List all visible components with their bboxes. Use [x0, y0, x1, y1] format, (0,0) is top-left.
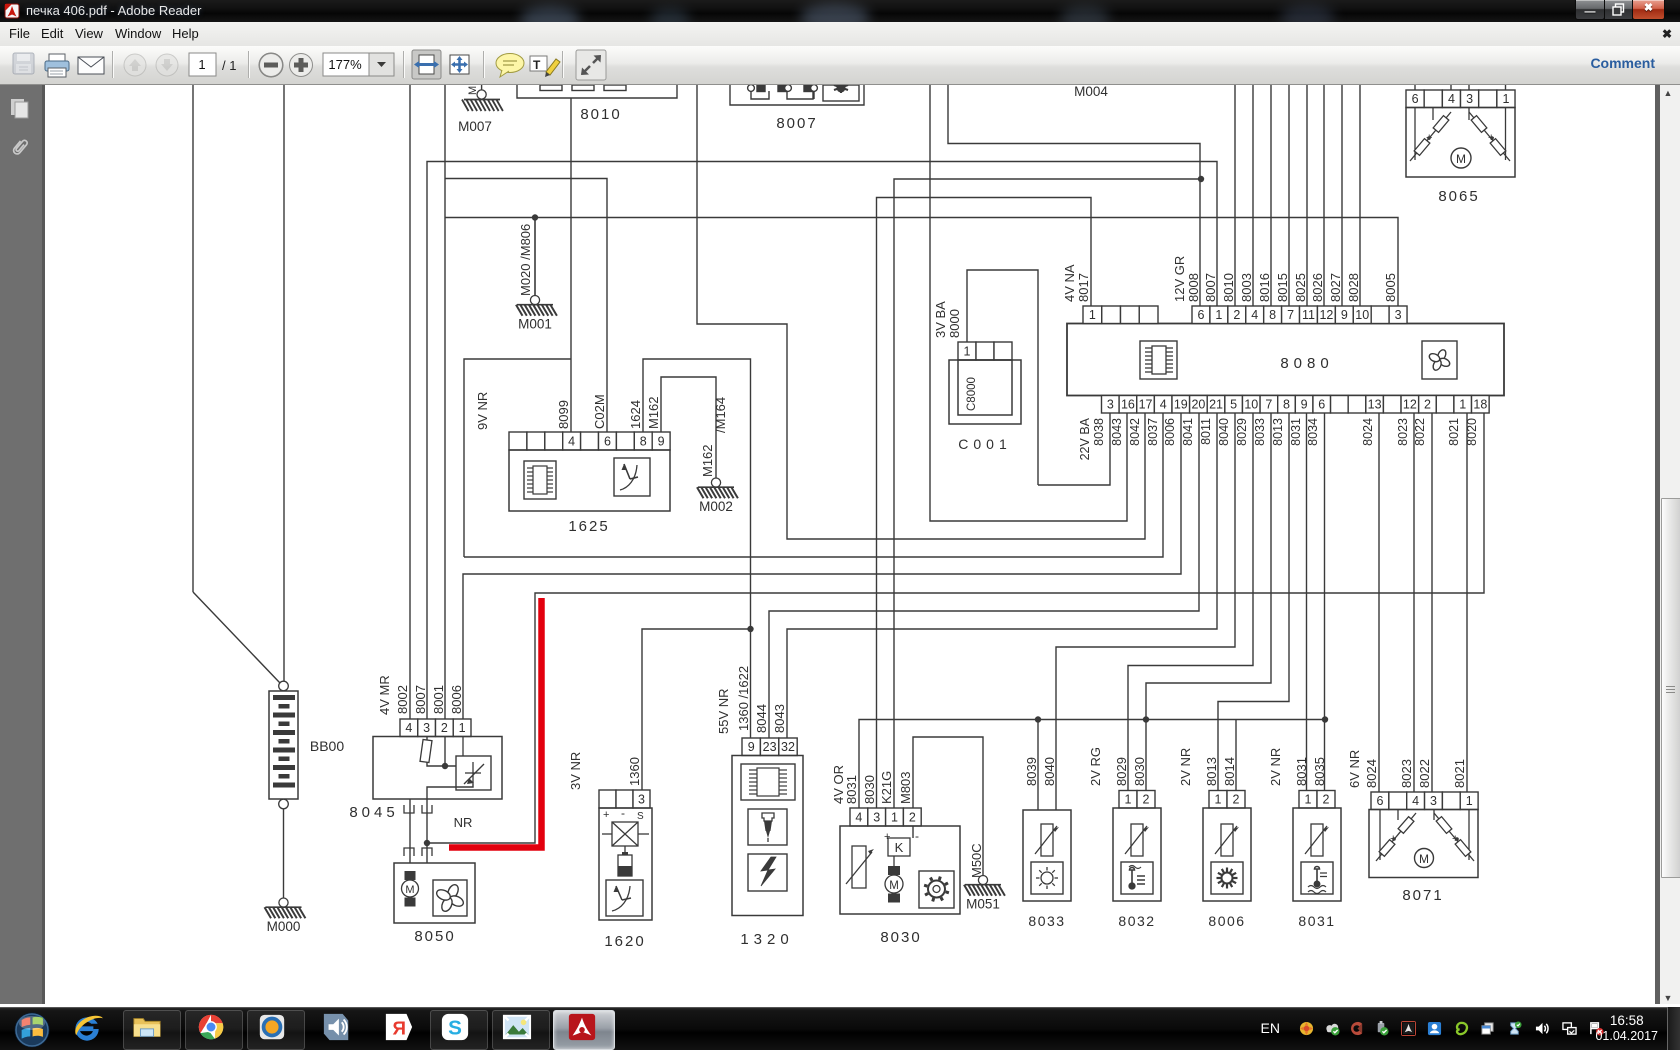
8050 motor M	[402, 871, 419, 907]
toolbar	[0, 46, 1680, 85]
1625 flap icon	[614, 458, 650, 496]
component 8071 body	[1369, 810, 1478, 878]
svg-text:8: 8	[1269, 308, 1276, 322]
page down (disabled)	[156, 54, 178, 76]
svg-text:10: 10	[1244, 398, 1258, 412]
svg-text:/ 1: / 1	[222, 58, 236, 73]
svg-text:10: 10	[1355, 308, 1369, 322]
taskbar IE icon	[70, 1012, 104, 1046]
svg-text:8013: 8013	[1271, 418, 1285, 446]
svg-text:9V NR: 9V NR	[475, 392, 490, 430]
email icon	[78, 57, 104, 74]
svg-text:-: -	[621, 806, 625, 820]
taskbar folder icon	[123, 1010, 181, 1050]
svg-text:+: +	[603, 809, 609, 821]
wire diagonal to battery	[193, 592, 280, 683]
8030 motor	[885, 856, 903, 903]
svg-text:M: M	[405, 884, 414, 896]
junction node rail/8034	[1322, 716, 1328, 722]
wire net 8013 (8080 to 8006 pin1)	[1218, 413, 1289, 791]
connector pins 8006 connector	[1209, 791, 1245, 809]
svg-text:1: 1	[198, 57, 205, 72]
8006 thermistor	[1215, 824, 1239, 856]
wire net 8024 (8080 to 8071 pin6)	[1378, 413, 1380, 792]
svg-text:1: 1	[1215, 308, 1222, 322]
svg-text:2: 2	[1424, 398, 1431, 412]
connector pins 8080 top-right pins	[1192, 306, 1407, 324]
svg-text:9: 9	[748, 740, 755, 754]
svg-text:8002: 8002	[395, 685, 410, 714]
svg-text:NR: NR	[454, 815, 473, 830]
1320 injector icon	[748, 809, 787, 845]
8031 icon	[1301, 862, 1333, 894]
svg-text:32: 32	[781, 740, 795, 754]
svg-text:8: 8	[640, 435, 647, 449]
8045 resistor	[420, 739, 432, 762]
svg-text:8031: 8031	[1289, 418, 1303, 446]
svg-text:2V NR: 2V NR	[1268, 748, 1283, 786]
svg-text:8007: 8007	[413, 685, 428, 714]
svg-text:1624: 1624	[628, 400, 643, 429]
wire net 8037 to 8080	[464, 413, 1163, 557]
svg-text:8027: 8027	[1328, 273, 1343, 302]
1320 lightning icon	[748, 854, 787, 891]
svg-text:22V BA: 22V BA	[1078, 417, 1092, 460]
svg-text:8034: 8034	[1306, 418, 1320, 446]
svg-text:8000: 8000	[947, 309, 962, 338]
taskbar Yandex icon	[384, 1012, 414, 1042]
svg-text:3: 3	[873, 811, 880, 825]
wire net fan feed	[426, 799, 428, 863]
8071 motor M	[1415, 849, 1434, 868]
svg-text:8006: 8006	[449, 685, 464, 714]
connector pins 8031 connector	[1299, 791, 1335, 809]
svg-text:8037: 8037	[1146, 418, 1160, 446]
svg-text:8021: 8021	[1452, 759, 1467, 788]
svg-text:8042: 8042	[1128, 418, 1142, 446]
svg-text:11: 11	[1302, 308, 1315, 322]
svg-text:3: 3	[1466, 92, 1473, 106]
wire net 8025 top	[1306, 85, 1308, 306]
8032 icon	[1121, 862, 1153, 894]
8006 icon	[1211, 862, 1243, 894]
ground M002	[697, 478, 738, 498]
svg-text:13: 13	[1368, 398, 1382, 412]
save icon (disabled)	[13, 53, 34, 74]
battery BB00	[269, 681, 298, 809]
vertical scrollbar	[1655, 85, 1680, 1004]
svg-text:8022: 8022	[1417, 759, 1432, 788]
svg-text:55V NR: 55V NR	[716, 688, 731, 734]
svg-text:8071: 8071	[1402, 887, 1443, 904]
wire supply left vertical	[192, 85, 194, 592]
wire 8030 pin2 internal	[912, 826, 914, 838]
svg-text:M: M	[1419, 852, 1429, 866]
svg-text:4: 4	[405, 721, 412, 735]
svg-text:K21G: K21G	[879, 771, 894, 804]
svg-text:17: 17	[1139, 398, 1153, 412]
wire C001 frame	[967, 270, 1038, 485]
1625 IC symbol	[524, 461, 556, 499]
wire net 8034 (8080 to 8031 pin2)	[1324, 413, 1326, 791]
svg-text:8006: 8006	[1163, 418, 1177, 446]
svg-text:8024: 8024	[1364, 759, 1379, 788]
connector pins 8080 top-left pins	[1083, 306, 1158, 324]
wire net 8002 (page top to 8045 pin4)	[409, 85, 411, 719]
wire net 8021 (8080 to 8071 pin1)	[1466, 413, 1468, 792]
svg-text:8007: 8007	[1203, 273, 1218, 302]
svg-text:7: 7	[1265, 398, 1272, 412]
svg-text:4: 4	[1251, 308, 1258, 322]
8030 gear icon	[919, 871, 954, 908]
wire net 1620 branch	[642, 629, 751, 790]
wire net 8008 (to 8080 top pin6)	[948, 85, 1200, 306]
svg-text:8003: 8003	[1239, 273, 1254, 302]
8080 IC symbol	[1140, 341, 1177, 379]
svg-text:M50C: M50C	[969, 843, 984, 878]
svg-text:3V NR: 3V NR	[568, 752, 583, 790]
svg-text:1: 1	[1305, 793, 1312, 807]
8065 resistors	[1410, 108, 1510, 162]
wire net 8033 (8080 to 8032 pin2)	[1146, 413, 1271, 791]
zoom level box	[323, 53, 369, 76]
wire 8045 transistor output	[427, 784, 473, 799]
svg-text:8028: 8028	[1346, 273, 1361, 302]
svg-text:8031: 8031	[1294, 757, 1309, 786]
text edit icon	[530, 56, 560, 77]
taskbar photo viewer icon	[492, 1010, 550, 1050]
wire M007 stub	[481, 85, 483, 90]
wire 8045 internal pin3b	[427, 762, 456, 766]
component 8010 (top, cut off)	[517, 85, 677, 98]
svg-text:4V NA: 4V NA	[1062, 264, 1077, 302]
svg-text:2: 2	[1233, 793, 1240, 807]
svg-text:C8000: C8000	[966, 377, 978, 411]
1620 regulator icon	[602, 822, 649, 854]
svg-text:T: T	[533, 58, 541, 72]
svg-text:8014: 8014	[1222, 757, 1237, 786]
svg-text:8045: 8045	[349, 804, 398, 821]
svg-text:12V GR: 12V GR	[1172, 256, 1187, 302]
svg-text:8050: 8050	[414, 928, 455, 945]
svg-text:4: 4	[1412, 794, 1419, 808]
svg-text:8035: 8035	[1312, 757, 1327, 786]
svg-text:6: 6	[1197, 308, 1204, 322]
svg-text:2: 2	[909, 811, 916, 825]
wire net 8017 (8080 pin1 to 8030 pin3)	[877, 198, 1092, 809]
8030 body	[840, 826, 960, 914]
svg-text:Я: Я	[392, 1018, 405, 1039]
wire net 8038 (C001 to 8080)	[1038, 413, 1110, 485]
wire net 8014 (rail to 8006 pin2)	[1235, 720, 1237, 791]
svg-text:8010: 8010	[1221, 273, 1236, 302]
svg-text:6: 6	[1412, 92, 1419, 106]
component 8050 body	[394, 863, 475, 923]
C001 inner box	[958, 360, 1012, 415]
wire net 8022 (8080 to 8071 pin3)	[1431, 413, 1433, 792]
8065 motor M	[1451, 148, 1471, 168]
svg-text:6: 6	[1318, 398, 1325, 412]
wire net 8099/8037 (8010 to 1625 pin4 and 8080)	[570, 98, 572, 432]
1620 battery icon	[618, 852, 632, 876]
svg-text:8010: 8010	[580, 106, 621, 123]
wire M020/M806 ground wire	[534, 218, 536, 296]
connector pins 8045 connector	[400, 719, 471, 737]
fit page button	[450, 55, 469, 74]
wire net 8003 top	[1252, 85, 1254, 306]
svg-text:M007: M007	[458, 119, 492, 134]
wire net 8011/8043b (8080 to 1320 pin32)	[787, 413, 1217, 738]
1320 body	[732, 756, 803, 916]
svg-text:2: 2	[1233, 308, 1240, 322]
svg-text:18: 18	[1473, 398, 1487, 412]
svg-text:5: 5	[1230, 398, 1237, 412]
8045 transistor	[456, 737, 491, 791]
1320 IC icon	[741, 764, 795, 800]
svg-text:9: 9	[1301, 398, 1308, 412]
wire battery to ground	[283, 809, 285, 898]
svg-text:S: S	[637, 811, 644, 822]
svg-text:3: 3	[1430, 794, 1437, 808]
svg-text:8038: 8038	[1092, 418, 1106, 446]
wire net 8027 top	[1341, 85, 1343, 306]
svg-text:1: 1	[964, 345, 971, 359]
taskbar speaker icon	[322, 1012, 352, 1042]
svg-text:4: 4	[1448, 92, 1455, 106]
junction node 8008/K21G	[1198, 176, 1204, 182]
svg-text:8041: 8041	[1181, 418, 1195, 446]
connector pins 8030 connector	[850, 808, 921, 826]
svg-text:K: K	[895, 840, 904, 855]
svg-text:C001: C001	[958, 436, 1011, 452]
wire net 8037 loop	[464, 359, 571, 557]
svg-text:21: 21	[1209, 398, 1223, 412]
svg-text:8023: 8023	[1396, 418, 1410, 446]
svg-text:2V NR: 2V NR	[1178, 748, 1193, 786]
svg-text:4: 4	[568, 435, 575, 449]
svg-text:1: 1	[1125, 793, 1132, 807]
connector pins 1625 connector	[509, 432, 670, 450]
svg-text:8033: 8033	[1253, 418, 1267, 446]
svg-text:1320: 1320	[740, 931, 793, 948]
wire net 8015 top	[1288, 85, 1290, 306]
svg-text:C02M: C02M	[592, 394, 607, 429]
Adobe Reader window title bar	[0, 0, 1680, 22]
maximize button	[1604, 0, 1633, 20]
svg-text:M000: M000	[267, 919, 301, 934]
print icon	[45, 54, 69, 77]
component 8080 main box	[1067, 324, 1504, 396]
svg-text:6: 6	[604, 435, 611, 449]
svg-text:1625: 1625	[568, 518, 609, 535]
component 8050 connector marks	[404, 848, 432, 856]
svg-text:8006: 8006	[1208, 913, 1245, 929]
close button	[1632, 0, 1665, 20]
junction node 1360/1620	[747, 626, 753, 632]
svg-text:8026: 8026	[1310, 273, 1325, 302]
component 8007 (top, cut off)	[730, 85, 864, 105]
wire net K21G (8030 pin1 to node 8008)	[894, 179, 1201, 808]
connector pins 8065 connector	[1406, 90, 1515, 108]
wire net 8010 top	[1234, 85, 1236, 306]
wire ground rail 22V	[445, 218, 1398, 307]
svg-text:8043: 8043	[1110, 418, 1124, 446]
zoom out	[259, 53, 283, 77]
fullscreen icon	[576, 50, 606, 80]
svg-text:1: 1	[1089, 308, 1096, 322]
page number box	[189, 53, 216, 76]
wire net 8041/8044 (8080 to 1320 pin23)	[769, 413, 1199, 738]
8045 connector marks	[404, 805, 432, 813]
svg-text:8016: 8016	[1257, 273, 1272, 302]
svg-text:19: 19	[1174, 398, 1188, 412]
connector pins 8032 connector	[1119, 791, 1155, 809]
junction node 8050 feed	[424, 840, 430, 846]
svg-text:3: 3	[423, 721, 430, 735]
wire net 8023 (8080 to 8071 pin4)	[1413, 413, 1415, 792]
junction node rail/8039	[1035, 716, 1041, 722]
component 8065 body	[1406, 108, 1515, 178]
svg-text:M162: M162	[646, 396, 661, 429]
wire net 8039 (rail to 8033 left)	[1037, 720, 1039, 811]
svg-text:M004: M004	[1074, 85, 1108, 99]
svg-text:8011: 8011	[1199, 418, 1213, 445]
wire net 8006 (8080 to 8045 pin1)	[463, 413, 1181, 719]
wire net motor feed	[409, 799, 411, 863]
svg-text:1: 1	[459, 721, 466, 735]
svg-text:8008: 8008	[1186, 273, 1201, 302]
svg-text:8031: 8031	[1298, 913, 1335, 929]
svg-text:M020 /M806: M020 /M806	[518, 224, 533, 296]
svg-text:8023: 8023	[1399, 759, 1414, 788]
svg-text:1: 1	[1466, 794, 1473, 808]
wire net 8040 (8080 to 8033 right)	[1056, 413, 1235, 810]
svg-text:1: 1	[1502, 92, 1509, 106]
svg-text:1: 1	[891, 811, 898, 825]
svg-text:M: M	[889, 880, 899, 892]
svg-text:M051: M051	[966, 897, 1000, 912]
junction node 8033 rail	[1143, 716, 1149, 722]
svg-text:8005: 8005	[1383, 273, 1398, 302]
svg-text:20: 20	[1191, 398, 1205, 412]
red marker annotation	[449, 598, 542, 848]
8080 fan symbol	[1422, 341, 1457, 379]
svg-text:1: 1	[1459, 398, 1466, 412]
system tray	[1679, 1007, 1680, 1050]
wire net 8042 (page top to 8080)	[697, 85, 1145, 539]
svg-text:8031: 8031	[844, 775, 859, 804]
svg-text:12: 12	[1403, 398, 1417, 412]
svg-text:1620: 1620	[604, 933, 645, 950]
svg-text:16: 16	[1121, 398, 1135, 412]
svg-text:8017: 8017	[1076, 273, 1091, 302]
C001 outer box	[949, 360, 1021, 424]
svg-text:8043: 8043	[772, 704, 787, 733]
svg-text:177%: 177%	[328, 57, 362, 72]
8032 body	[1113, 808, 1161, 901]
svg-text:/M164: /M164	[713, 397, 728, 433]
svg-text:8033: 8033	[1028, 913, 1065, 929]
1620 body	[599, 808, 652, 920]
svg-text:6: 6	[1376, 794, 1383, 808]
minimize button	[1575, 0, 1605, 20]
taskbar Chrome icon	[185, 1010, 243, 1050]
svg-text:M162: M162	[700, 444, 715, 477]
svg-text:8025: 8025	[1293, 273, 1308, 302]
svg-text:1360: 1360	[627, 757, 642, 786]
svg-text:8021: 8021	[1447, 418, 1461, 446]
wire 8045 internal pin2	[444, 737, 446, 767]
svg-text:BB00: BB00	[310, 738, 344, 754]
8030 variable resistor	[846, 846, 874, 888]
connector pins 8080 bottom pins	[1102, 396, 1490, 414]
taskbar VMware icon	[247, 1010, 305, 1050]
svg-text:S: S	[448, 1017, 462, 1040]
wire net 8016 top	[1270, 85, 1272, 306]
wire M162 ground wire	[661, 377, 716, 478]
svg-text:7: 7	[1287, 308, 1294, 322]
svg-text:-: -	[915, 829, 919, 843]
wire net 8026 top	[1323, 85, 1325, 306]
svg-text:8015: 8015	[1275, 273, 1290, 302]
svg-text:3: 3	[1107, 398, 1114, 412]
ground M051	[964, 876, 1005, 896]
svg-text:3: 3	[638, 793, 645, 807]
svg-text:8044: 8044	[754, 704, 769, 733]
svg-text:2: 2	[1143, 793, 1150, 807]
8045 body	[373, 737, 502, 800]
wire net 8020 (8080 to 8050)	[427, 413, 1484, 843]
svg-text:8099: 8099	[556, 400, 571, 429]
svg-text:M: M	[1456, 152, 1466, 166]
junction node 8045 internal	[442, 763, 448, 769]
svg-text:2V RG: 2V RG	[1088, 747, 1103, 786]
svg-text:8001: 8001	[431, 685, 446, 714]
ground M000	[265, 898, 306, 918]
8033 thermistor	[1035, 824, 1059, 856]
svg-text:1: 1	[1215, 793, 1222, 807]
wire 8045 internal pin3a	[426, 737, 428, 741]
wire net 1624/1360 (1625 pin8 to 1320 pin9)	[643, 359, 751, 738]
svg-text:4: 4	[1160, 398, 1167, 412]
wire net 8043 (to 8080)	[930, 85, 1127, 521]
connector pins 1620 connector	[599, 790, 650, 808]
svg-text:8013: 8013	[1204, 757, 1219, 786]
svg-text:8024: 8024	[1361, 418, 1375, 446]
scroll mode button (pressed)	[412, 50, 441, 79]
navigation sidebar	[0, 85, 45, 1004]
svg-text:23: 23	[763, 740, 777, 754]
menu bar	[0, 22, 1680, 47]
svg-text:8080: 8080	[1280, 355, 1333, 372]
wire net 8001 vertical	[444, 85, 446, 719]
wire net 8031 (8080 to 8031 pin1)	[1306, 413, 1308, 791]
svg-text:M001: M001	[518, 317, 552, 332]
zoom in	[290, 54, 313, 77]
svg-text:6V NR: 6V NR	[1347, 750, 1362, 788]
svg-text:8032: 8032	[1118, 913, 1155, 929]
svg-text:8040: 8040	[1042, 757, 1057, 786]
svg-text:2: 2	[441, 721, 448, 735]
wire net 8007 (8045 pin3 to 8080 top pin1)	[427, 162, 1217, 720]
svg-text:3V BA: 3V BA	[933, 301, 948, 338]
component 8065 connector stubs	[1414, 85, 1416, 90]
svg-text:8030: 8030	[880, 929, 921, 946]
8071 resistors	[1376, 810, 1474, 862]
wire rail 8030 (8030 pin4 to sensors)	[859, 720, 1325, 809]
svg-text:8030: 8030	[862, 775, 877, 804]
8031 thermistor	[1305, 824, 1329, 856]
